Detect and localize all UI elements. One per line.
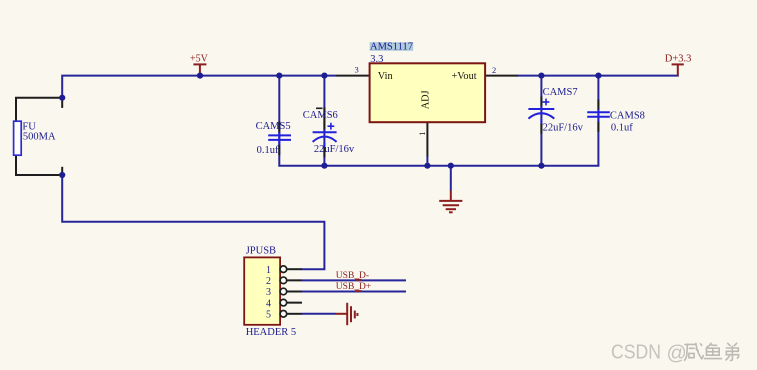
svg-text:USB_D+: USB_D+ <box>336 282 371 292</box>
svg-text:AMS1117: AMS1117 <box>370 41 413 52</box>
svg-text:CAMS7: CAMS7 <box>543 87 578 98</box>
svg-text:5: 5 <box>266 309 271 320</box>
svg-text:22uF/16v: 22uF/16v <box>543 122 584 133</box>
svg-text:Vin: Vin <box>378 71 393 82</box>
svg-text:JPUSB: JPUSB <box>246 246 276 257</box>
svg-text:CSDN: CSDN <box>611 342 661 365</box>
svg-text:3: 3 <box>266 287 271 298</box>
svg-text:1: 1 <box>417 132 427 136</box>
svg-text:0.1uf: 0.1uf <box>611 123 633 134</box>
svg-text:USB_D-: USB_D- <box>336 271 369 281</box>
svg-text:CAMS5: CAMS5 <box>256 121 291 132</box>
svg-text:1: 1 <box>266 265 271 276</box>
svg-text:500MA: 500MA <box>23 132 56 143</box>
svg-text:0.1uf: 0.1uf <box>257 145 279 156</box>
svg-text:3.3: 3.3 <box>370 54 383 65</box>
svg-text:+5V: +5V <box>190 54 209 65</box>
svg-text:CAMS8: CAMS8 <box>610 111 645 122</box>
svg-text:D+3.3: D+3.3 <box>665 54 692 65</box>
svg-text:+Vout: +Vout <box>452 71 477 82</box>
svg-text:HEADER 5: HEADER 5 <box>246 327 296 338</box>
svg-text:4: 4 <box>266 298 271 309</box>
svg-text:2: 2 <box>266 276 271 287</box>
svg-text:CAMS6: CAMS6 <box>303 110 338 121</box>
svg-text:3: 3 <box>355 65 359 75</box>
svg-text:@: @ <box>667 343 687 365</box>
svg-text:ADJ: ADJ <box>421 90 432 109</box>
svg-text:2: 2 <box>492 65 496 75</box>
svg-text:22uF/16v: 22uF/16v <box>314 144 355 155</box>
